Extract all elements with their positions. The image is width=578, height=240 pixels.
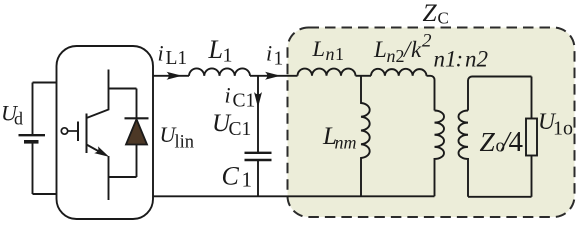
wire secondary bottom: [468, 196, 532, 198]
svg-text:lin: lin: [175, 133, 195, 153]
svg-text:L: L: [312, 36, 326, 61]
label UC1: [212, 110, 251, 140]
svg-text:C1: C1: [229, 119, 252, 140]
svg-text:1: 1: [242, 168, 253, 192]
svg-text:i: i: [266, 40, 272, 65]
label n1:n2: [434, 46, 489, 71]
svg-text:n2: n2: [465, 46, 488, 71]
transformer T1 primary: [435, 111, 445, 197]
label Ulin: [160, 122, 195, 153]
label i1: [266, 40, 283, 69]
arrow i1: [265, 72, 281, 80]
svg-text:C: C: [222, 161, 240, 190]
wire inverter output to L1: [153, 75, 189, 77]
svg-text:Z: Z: [423, 0, 438, 27]
resistor Zo/4: [526, 119, 537, 156]
svg-text:d: d: [14, 108, 23, 128]
inductor Ln1: [298, 69, 356, 76]
wire L1 to ZC box: [250, 75, 298, 77]
wire collector to diode top: [109, 88, 137, 90]
bottom rail: [153, 195, 435, 197]
svg-text:Z: Z: [480, 126, 496, 157]
wire below resistor: [531, 156, 533, 197]
label Ln1: [312, 36, 345, 64]
dashed box ZC: [288, 28, 575, 218]
transformer T1 secondary: [458, 77, 531, 197]
battery Ud: [19, 83, 46, 195]
svg-text:k: k: [411, 37, 422, 62]
svg-text:nm: nm: [335, 132, 357, 152]
svg-text:L: L: [373, 37, 387, 62]
svg-text:C1: C1: [233, 91, 256, 112]
arrow iC1: [254, 92, 262, 108]
svg-text:1: 1: [223, 44, 233, 66]
wire Ln2 to transformer primary: [427, 76, 435, 111]
arrow iL1: [167, 72, 183, 80]
inductor Lnm: [361, 76, 370, 197]
inverter box U lin: [57, 46, 154, 219]
svg-text:n: n: [326, 44, 335, 64]
label C1: [222, 161, 253, 191]
svg-text:1: 1: [335, 44, 344, 64]
svg-text:L: L: [208, 35, 223, 64]
wire Ln1 to Ln2 with Lnm tap: [356, 75, 372, 77]
svg-text:C: C: [438, 8, 449, 27]
label Ln2/k2: [373, 31, 432, 66]
inductor Ln2/k2: [371, 69, 427, 76]
label Lnm: [322, 123, 357, 152]
svg-text:n1: n1: [434, 46, 457, 71]
svg-text:n: n: [387, 46, 396, 66]
svg-text:i: i: [225, 82, 231, 107]
svg-text::: :: [456, 46, 464, 71]
wire secondary right side: [531, 77, 533, 119]
wire diode bottom to emitter: [109, 176, 137, 178]
transistor Q1 (IGBT): [61, 70, 109, 201]
label Zo/4: [480, 126, 524, 158]
svg-text:L1: L1: [166, 48, 188, 69]
wire battery bottom to inverter: [33, 193, 57, 195]
label ZC: [423, 0, 449, 27]
svg-text:1: 1: [274, 49, 284, 70]
label iC1: [225, 82, 256, 111]
label U1o: [538, 109, 573, 139]
label iL1: [158, 40, 188, 69]
svg-text:2: 2: [422, 31, 432, 52]
label Ud: [1, 101, 23, 129]
svg-text:1o: 1o: [553, 117, 573, 139]
capacitor C1: [245, 76, 272, 197]
wire battery top to inverter: [33, 82, 57, 84]
svg-text:i: i: [158, 40, 164, 65]
svg-text:4: 4: [509, 126, 524, 158]
diode D1: [125, 89, 149, 178]
inductor L1: [189, 68, 250, 75]
label L1: [208, 35, 233, 66]
